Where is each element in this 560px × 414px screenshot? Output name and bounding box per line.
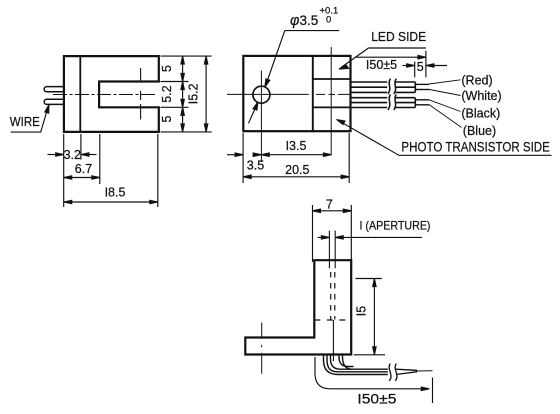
- pin 1: [44, 87, 64, 92]
- svg-text:20.5: 20.5: [285, 163, 309, 177]
- extension lines below side view: [243, 133, 349, 183]
- extension lines right of front view: [161, 56, 212, 132]
- wire tip bottom view: [396, 369, 433, 374]
- svg-text:φ3.5: φ3.5: [290, 13, 318, 29]
- dimension 20.5: [243, 175, 349, 178]
- svg-text:PHOTO TRANSISTOR SIDE: PHOTO TRANSISTOR SIDE: [401, 139, 550, 154]
- body outline front view: [64, 56, 159, 132]
- svg-text:7: 7: [326, 197, 333, 211]
- bare wire tips: [415, 84, 429, 104]
- svg-text:I8.5: I8.5: [105, 186, 126, 200]
- svg-text:(Black): (Black): [461, 106, 500, 120]
- svg-text:6.7: 6.7: [75, 162, 92, 176]
- leader WIRE: [11, 105, 49, 132]
- svg-text:I (APERTURE): I (APERTURE): [360, 218, 431, 232]
- dimension 1 (APERTURE): [318, 236, 423, 239]
- aperture extension lines: [329, 231, 335, 269]
- svg-text:(Red): (Red): [461, 73, 492, 87]
- wire center edge line: [332, 320, 334, 361]
- dimension 7: [313, 205, 352, 262]
- wire bends bottom view: [324, 355, 388, 375]
- dimension line 5 / 5.2 / 5: [181, 56, 184, 132]
- leader phi3.5: [249, 31, 340, 124]
- svg-text:I50±5: I50±5: [366, 58, 397, 72]
- svg-text:I5.2: I5.2: [186, 83, 200, 104]
- dimension 13.5: [261, 153, 331, 156]
- svg-text:5.2: 5.2: [160, 85, 174, 102]
- dimension 18.5: [64, 200, 158, 203]
- led block bottom line: [313, 106, 351, 108]
- body outline bottom view: [245, 260, 351, 354]
- svg-text:WIRE: WIRE: [10, 115, 40, 129]
- vertical centerline on base arm: [261, 323, 263, 375]
- dimension 6.7: [64, 176, 100, 179]
- break marks bundle 2: [388, 94, 396, 110]
- dimension 3.5: [227, 153, 261, 156]
- dimension 3.2: [48, 153, 97, 156]
- led block top line: [313, 78, 351, 80]
- vertical centerline in slot: [140, 69, 142, 119]
- wires side view: [351, 82, 416, 108]
- break marks bundle 1: [388, 79, 396, 94]
- svg-text:I50±5: I50±5: [357, 391, 396, 407]
- hidden aperture dashed lines: [331, 272, 335, 320]
- svg-text:(Blue): (Blue): [463, 124, 496, 138]
- hole vertical center tick: [260, 71, 262, 162]
- dimension 15: [354, 279, 385, 355]
- svg-text:(White): (White): [461, 89, 501, 103]
- dimension 150+-5 (top): [355, 51, 447, 78]
- body outline side view: [243, 56, 350, 131]
- break mark bottom wire: [389, 364, 397, 381]
- pin 2: [44, 99, 64, 104]
- svg-text:0: 0: [326, 15, 331, 26]
- leader LED SIDE: [339, 48, 426, 69]
- svg-text:I3.5: I3.5: [286, 139, 307, 153]
- wire bundle 1 lines: [351, 81, 388, 83]
- extension lines below front view: [64, 134, 158, 207]
- hidden internal bottom dashed line: [314, 319, 351, 321]
- svg-text:I5: I5: [355, 306, 369, 316]
- svg-text:5: 5: [160, 65, 174, 72]
- svg-text:3.5: 3.5: [247, 159, 264, 173]
- svg-text:5: 5: [160, 115, 174, 122]
- svg-text:5: 5: [417, 60, 424, 74]
- dimension line 15.2: [204, 56, 207, 132]
- hole circle: [253, 86, 270, 103]
- svg-text:LED SIDE: LED SIDE: [371, 29, 426, 44]
- leader lines to wire color labels: [429, 80, 462, 128]
- divider line side view: [312, 56, 314, 131]
- aperture axis line: [330, 48, 332, 155]
- dimension 150+-5 (bottom): [315, 357, 433, 403]
- horizontal centerline side view: [228, 93, 351, 95]
- wire bundle 2 lines: [351, 97, 388, 99]
- inner edge line front view: [79, 56, 81, 132]
- leader PHOTO TRANSISTOR SIDE: [337, 120, 552, 156]
- horizontal centerline front view: [54, 94, 158, 96]
- svg-text:3.2: 3.2: [64, 148, 81, 162]
